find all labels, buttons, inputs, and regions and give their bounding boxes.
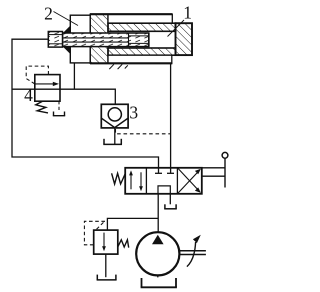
relief valve tank	[97, 275, 117, 280]
check valve 3 ball	[108, 108, 121, 121]
cylinder 1: rod-end gland white block	[70, 15, 90, 63]
label 1 leader	[168, 20, 185, 37]
pump shaft	[179, 250, 206, 252]
reducing valve 4 drain dashed	[58, 101, 60, 111]
cylinder 1: gland hatched block	[90, 14, 108, 63]
directional valve left square down arrow	[140, 172, 142, 188]
wire: relief branch	[107, 218, 158, 230]
reducing valve 4 flow arrow	[35, 83, 55, 85]
wire: T line valve to tank	[169, 194, 171, 205]
reducing valve 4 drain tank	[53, 112, 65, 116]
svg-text:4: 4	[24, 85, 33, 105]
directional valve body	[125, 168, 202, 194]
check valve 3 outlet wire	[114, 128, 116, 144]
directional valve middle square blocked port A	[155, 172, 162, 174]
reducing valve 4 spring	[36, 101, 48, 113]
pump circle	[136, 232, 179, 275]
check valve 3 seat V	[102, 118, 128, 127]
rod seal wedge bottom (filled)	[63, 46, 71, 54]
relief valve pilot dashed	[84, 221, 105, 245]
svg-text:3: 3	[129, 103, 138, 123]
rod seal wedge top (filled)	[63, 26, 71, 34]
relief valve outlet	[105, 254, 107, 277]
check valve 3 body	[101, 104, 128, 128]
check valve 3 pilot dashed line	[116, 129, 171, 134]
cylinder 1: bottom white band	[108, 55, 172, 63]
directional valve manual lever	[202, 158, 225, 187]
piston rod 2 (hollow, sectioned)	[48, 32, 149, 48]
relief valve spring	[118, 240, 129, 248]
cylinder 1: top hatched band	[108, 23, 176, 31]
wire: rod-end feed line from rod to left rail	[12, 39, 159, 173]
check valve 3 tank	[103, 139, 122, 145]
svg-text:1: 1	[183, 3, 192, 23]
directional valve middle square blocked port B	[167, 172, 174, 174]
wire: cylinder piston-side line down to valve port B	[170, 64, 172, 174]
pump triangle	[152, 235, 164, 244]
svg-text:2: 2	[44, 3, 53, 23]
directional valve left square up arrow	[130, 174, 132, 190]
pump tank	[141, 278, 177, 287]
directional valve middle square P-T unloading U	[158, 186, 170, 194]
directional valve right square cross arrows	[177, 172, 198, 194]
reducing valve 4 pilot dashed	[26, 66, 48, 84]
relief valve arrow	[103, 233, 105, 247]
pump rotation arrow	[187, 242, 196, 267]
wire: cylinder rod-side port down-line	[73, 63, 75, 89]
pump suction pipe	[157, 275, 159, 277]
ground ticks under cylinder	[109, 64, 128, 69]
cylinder 1: bottom hatched band	[108, 48, 176, 55]
directional valve return spring	[112, 173, 126, 184]
label 2 leader	[54, 12, 79, 26]
cylinder 1: end cap	[176, 23, 193, 55]
tank at valve T port	[164, 204, 177, 209]
wire: P line valve to pump	[157, 194, 159, 233]
reducing valve 4 body	[35, 75, 60, 102]
relief valve body	[94, 230, 118, 254]
wire: branch through reducing valve 4 to check valve 3	[12, 89, 115, 104]
cylinder 1: top white band	[108, 14, 172, 23]
